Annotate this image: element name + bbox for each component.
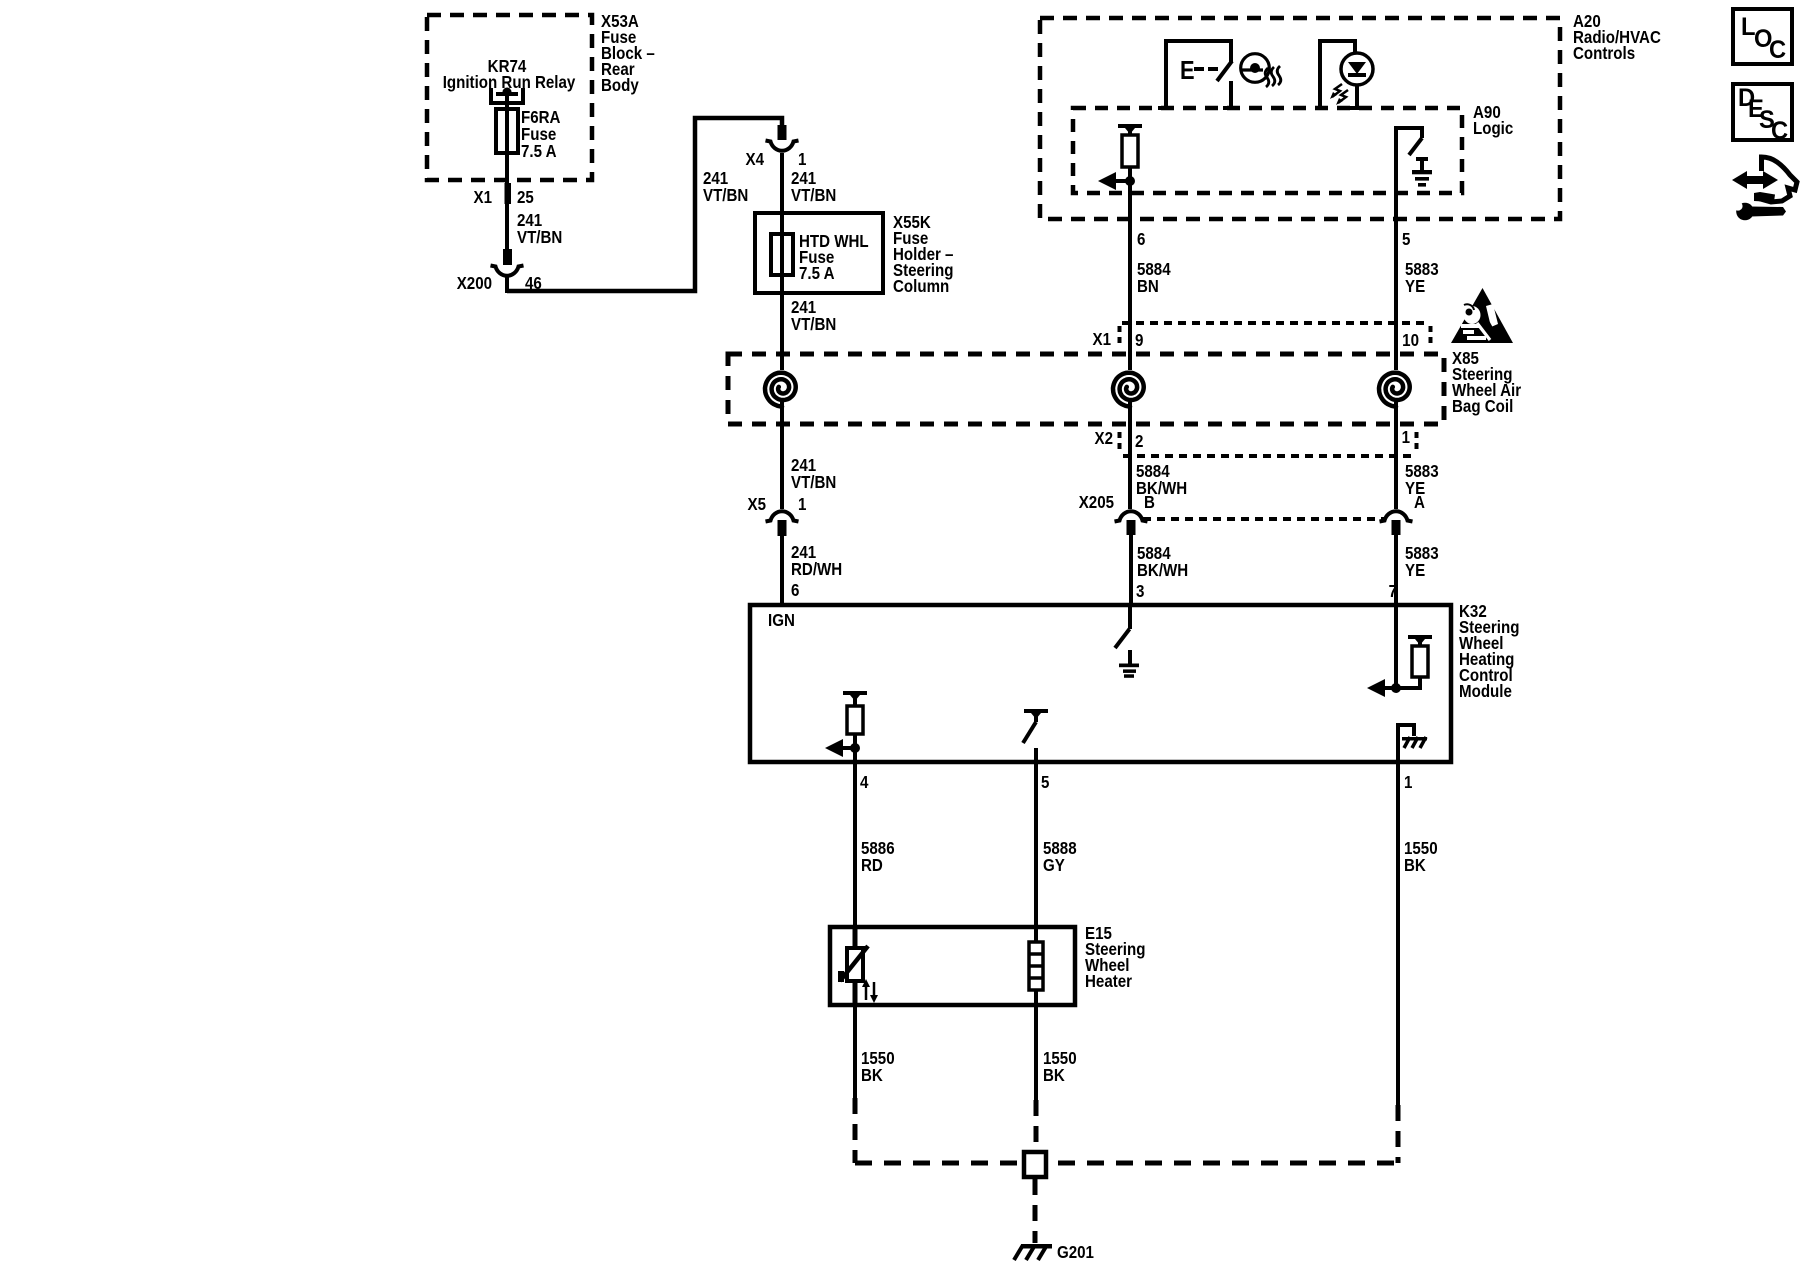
svg-text:Controls: Controls: [1573, 43, 1635, 64]
svg-text:X1: X1: [474, 187, 492, 208]
svg-text:7: 7: [1389, 581, 1397, 602]
svg-text:9: 9: [1135, 330, 1143, 351]
svg-text:VT/BN: VT/BN: [791, 314, 836, 335]
svg-text:10: 10: [1402, 330, 1419, 351]
svg-text:VT/BN: VT/BN: [703, 185, 748, 206]
svg-text:X200: X200: [457, 273, 492, 294]
svg-text:Heater: Heater: [1085, 971, 1133, 992]
svg-text:E: E: [1180, 56, 1195, 85]
svg-text:VT/BN: VT/BN: [791, 472, 836, 493]
svg-text:6: 6: [791, 580, 799, 601]
svg-text:6: 6: [1137, 229, 1145, 250]
svg-text:C: C: [1769, 36, 1786, 64]
svg-text:1: 1: [798, 494, 806, 515]
svg-text:RD/WH: RD/WH: [791, 559, 842, 580]
svg-text:4: 4: [860, 772, 869, 793]
svg-text:X4: X4: [746, 149, 765, 170]
svg-text:7.5 A: 7.5 A: [521, 141, 557, 162]
svg-text:X5: X5: [748, 494, 766, 515]
svg-text:BN: BN: [1137, 276, 1159, 297]
svg-text:BK: BK: [1043, 1065, 1065, 1086]
svg-text:1: 1: [1402, 427, 1410, 448]
svg-text:GY: GY: [1043, 855, 1065, 876]
svg-text:VT/BN: VT/BN: [791, 185, 836, 206]
svg-text:2: 2: [1135, 431, 1143, 452]
svg-text:G201: G201: [1057, 1242, 1094, 1263]
svg-text:C: C: [1771, 117, 1788, 145]
svg-text:5: 5: [1402, 229, 1410, 250]
svg-text:Body: Body: [601, 75, 639, 96]
svg-text:B: B: [1144, 492, 1155, 513]
svg-text:1: 1: [1404, 772, 1412, 793]
svg-text:Column: Column: [893, 276, 949, 297]
svg-text:3: 3: [1136, 581, 1144, 602]
svg-text:1: 1: [798, 149, 806, 170]
svg-text:YE: YE: [1405, 560, 1425, 581]
svg-text:Bag Coil: Bag Coil: [1452, 396, 1513, 417]
svg-text:RD: RD: [861, 855, 883, 876]
svg-text:Logic: Logic: [1473, 118, 1513, 139]
svg-text:VT/BN: VT/BN: [517, 227, 562, 248]
svg-text:25: 25: [517, 187, 534, 208]
svg-text:5: 5: [1041, 772, 1049, 793]
svg-text:BK: BK: [1404, 855, 1426, 876]
svg-text:IGN: IGN: [768, 610, 795, 631]
svg-text:X2: X2: [1095, 428, 1113, 449]
svg-text:YE: YE: [1405, 276, 1425, 297]
svg-text:X205: X205: [1079, 492, 1114, 513]
svg-text:X1: X1: [1093, 329, 1111, 350]
svg-text:Module: Module: [1459, 681, 1512, 702]
svg-text:A: A: [1414, 492, 1425, 513]
svg-text:BK: BK: [861, 1065, 883, 1086]
svg-text:7.5 A: 7.5 A: [799, 263, 835, 284]
svg-text:BK/WH: BK/WH: [1137, 560, 1188, 581]
